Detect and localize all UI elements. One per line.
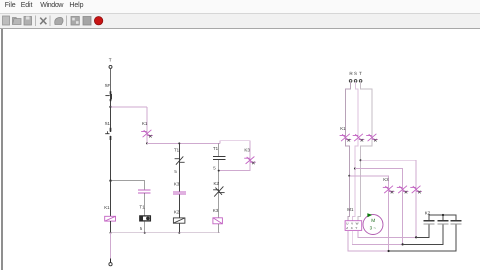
coil T1 (timer): [140, 216, 151, 221]
motor M1 terminal box: [345, 221, 362, 231]
svg-text:ZXY: ZXY: [346, 226, 360, 230]
contact K3 pole 1: [383, 186, 395, 194]
wire: [178, 223, 180, 233]
wire tap to K3 pole 2: [355, 169, 403, 245]
svg-text:K2: K2: [174, 209, 180, 214]
coil K3: [213, 218, 223, 224]
wire to capacitor 2: [403, 225, 443, 245]
contact S1: [105, 128, 110, 140]
motor M1 circle: [363, 215, 383, 235]
toolbar separator: [35, 16, 37, 27]
toolbar icon: record (red): [94, 17, 102, 25]
svg-text:K3: K3: [213, 208, 219, 213]
wire: [144, 193, 146, 216]
contact T1 (plates, magenta): [138, 190, 151, 193]
junction: [354, 168, 356, 170]
coil K1: [105, 216, 116, 221]
junction: [178, 142, 180, 144]
svg-text:T1: T1: [139, 205, 145, 210]
svg-text:K3: K3: [383, 177, 389, 182]
toolbar: [0, 14, 480, 29]
wire: [218, 224, 220, 233]
wire: [110, 107, 112, 181]
toolbar icon: new: [3, 16, 10, 25]
wire jog to T1 branch: [111, 181, 145, 190]
svg-text:K3: K3: [174, 181, 180, 186]
contact K1 pole 1: [340, 134, 352, 142]
wire: [110, 258, 112, 262]
junction: [360, 159, 362, 161]
wire tap to K3 pole 3: [361, 160, 417, 237]
toolbar separator: [49, 16, 51, 27]
wire phase T: [358, 82, 372, 221]
wire phase R: [345, 82, 350, 221]
contact K3 pole 2: [397, 186, 409, 194]
terminal R: [349, 80, 352, 83]
contact K1 (aux, NO): [141, 130, 153, 138]
wire capacitor top bus: [429, 215, 456, 220]
junction: [144, 232, 146, 234]
svg-text:3 ~: 3 ~: [370, 225, 377, 230]
wire to K1 aux branch: [111, 106, 148, 108]
svg-text:S: S: [354, 71, 357, 76]
wire: [146, 107, 148, 143]
svg-text:T1: T1: [213, 146, 219, 151]
wire: [144, 221, 146, 233]
window client-area left border: [1, 29, 3, 270]
menu bar: [0, 0, 480, 14]
capacitor C3 (K2 pole 3): [451, 221, 462, 224]
contact K1 pole 2: [353, 134, 365, 142]
wire: [218, 143, 220, 156]
junction: [402, 243, 404, 245]
svg-text:S1: S1: [105, 121, 111, 126]
svg-text:R: R: [349, 71, 353, 76]
wire to capacitor 3: [389, 225, 456, 251]
svg-text:K3: K3: [244, 148, 250, 153]
wire motor Y down: [358, 230, 416, 237]
toolbar icon: square: [83, 17, 91, 26]
svg-text:K1: K1: [340, 126, 346, 131]
terminal N: [109, 263, 112, 266]
terminal T: [359, 80, 362, 83]
wire: [218, 160, 220, 218]
svg-text:K1: K1: [142, 121, 148, 126]
svg-text:5: 5: [174, 169, 177, 174]
junction: [110, 232, 112, 234]
wire: [442, 215, 444, 220]
wire to bottom terminal: [110, 233, 112, 259]
wire jog to K3 parallel branch: [219, 141, 250, 171]
wire phase S: [352, 82, 358, 221]
capacitor C2 (K2 pole 2): [438, 221, 449, 224]
wire: [110, 181, 112, 217]
svg-text:T: T: [109, 57, 112, 62]
junction: [388, 250, 390, 252]
svg-text:K2: K2: [214, 181, 220, 186]
contact K1 pole 3: [366, 134, 378, 142]
toolbar icon: open: [13, 18, 22, 25]
svg-text:M: M: [371, 218, 375, 224]
toolbar icon: checker: [71, 17, 79, 26]
junction: [348, 175, 350, 177]
toolbar icon: save: [24, 17, 32, 26]
capacitor C1 (K2 pole 1): [424, 221, 435, 224]
coil K2: [173, 218, 185, 223]
contact SF: [105, 91, 111, 101]
wire: [110, 221, 112, 233]
junction: [109, 106, 111, 108]
motor run indicator (green triangle): [367, 213, 372, 217]
contact K3 (NO, parallel): [244, 157, 256, 165]
wire tap to K3 pole 1: [349, 176, 388, 251]
contact K3 pole 3: [410, 186, 422, 194]
wire to capacitor 1: [416, 225, 429, 238]
wire motor Z down: [348, 230, 389, 251]
junction: [442, 214, 444, 216]
wire: [178, 143, 180, 191]
contact K3 (plates): [173, 192, 186, 194]
toolbar icon: delete X: [40, 18, 46, 25]
junction: [218, 170, 220, 172]
svg-text:SF: SF: [105, 83, 111, 88]
terminal S: [354, 80, 357, 83]
svg-text:5: 5: [140, 226, 143, 231]
wire motor X down: [352, 230, 402, 244]
terminal T: [109, 65, 112, 68]
toolbar icon: hand: [55, 17, 63, 24]
wire: [110, 68, 112, 91]
svg-text:K1: K1: [104, 205, 110, 210]
contact K2 (NC): [213, 186, 225, 196]
svg-text:M1: M1: [347, 207, 354, 212]
junction: [146, 142, 148, 144]
junction: [109, 180, 111, 182]
svg-text:5: 5: [213, 166, 216, 171]
contact T1 (timed, NO): [175, 156, 185, 164]
contact T1 (plates): [213, 157, 225, 160]
svg-text:T1: T1: [174, 147, 180, 152]
junction: [178, 232, 180, 234]
junction: [415, 236, 417, 238]
toolbar separator: [66, 16, 68, 27]
wire: [178, 195, 180, 218]
svg-text:T: T: [359, 71, 362, 76]
wire bus2: [147, 142, 220, 144]
wire bottom bus: [111, 232, 220, 234]
